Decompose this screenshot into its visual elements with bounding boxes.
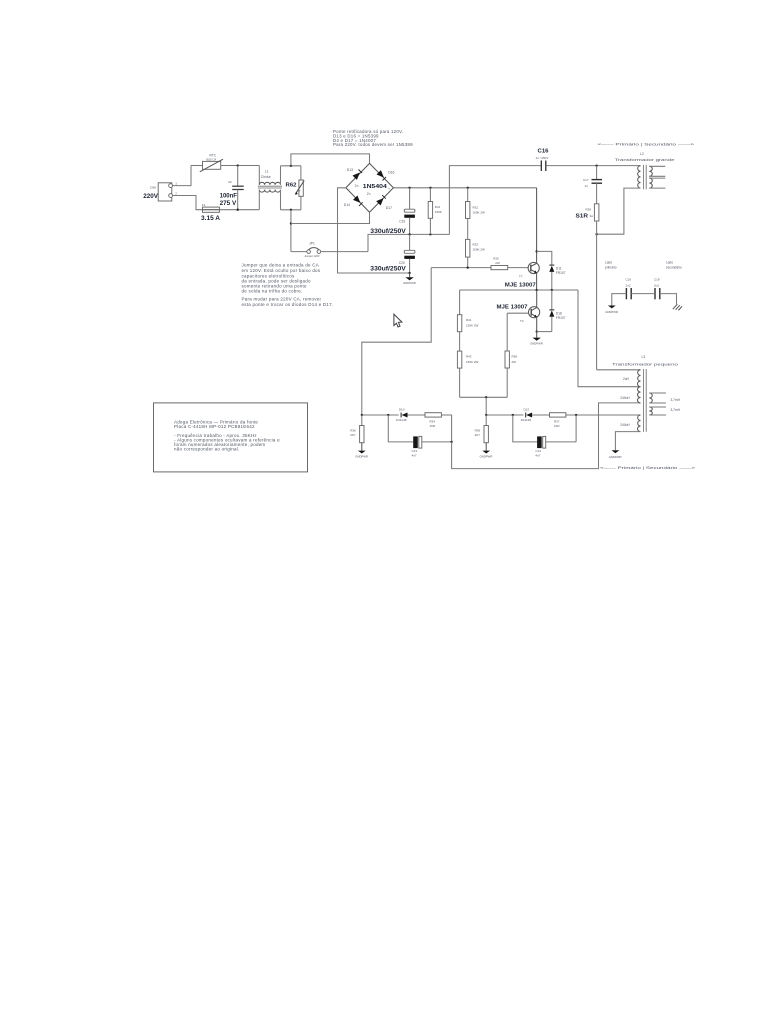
svg-text:GNDPWR: GNDPWR [609,455,622,459]
svg-text:Para 220V. todos devem ser 1N5: Para 220V. todos devem ser 1N5399 [333,142,413,147]
svg-text:Jumper 120V: Jumper 120V [304,254,320,258]
svg-text:R34: R34 [430,420,436,424]
resistor R38 [505,313,517,397]
ground GNDPWR below T4 [530,332,543,346]
capacitor C13 4n7 [388,415,451,457]
wire T4 collector [536,290,538,308]
varistor R62 [286,166,305,210]
wire AC2 down [290,210,292,252]
wire feedback return to L3 [452,403,641,469]
svg-text:R62: R62 [286,183,297,189]
bridge rectifier diamond [346,163,394,212]
wire pin1 to top rail [173,166,191,186]
svg-text:2K7: 2K7 [475,433,481,437]
capacitor C14 4n7 [513,415,576,457]
capacitor C16 1n/250V [536,149,550,171]
capacitor C17 1n [583,166,602,204]
svg-text:150K: 150K [435,210,442,214]
svg-text:R32: R32 [473,206,479,210]
diode D17 [376,195,392,210]
ground GNDPWR below L3 [609,450,622,459]
node R39 top [485,414,487,416]
info box [154,403,308,472]
note bridge rectifier text [333,129,413,147]
svg-text:1N4148: 1N4148 [396,418,407,422]
svg-text:GNDPWR: GNDPWR [530,341,543,345]
ground GNDPWR below C20 [403,273,416,285]
jumper JP1 [291,242,368,258]
ground GNDPWR lado primario [605,306,618,314]
svg-text:150K 2W: 150K 2W [466,324,479,328]
svg-text:150K 2W: 150K 2W [466,360,479,364]
wire bottom rail [219,209,259,211]
wire AC2 to bridge bottom [291,212,370,223]
wire AC1 up to bridge top [291,154,370,166]
svg-text:D16: D16 [388,171,394,175]
svg-text:Choke: Choke [261,175,271,179]
capacitor C18 2n2 [654,278,660,300]
svg-text:R26: R26 [493,257,499,261]
svg-text:2×: 2× [367,192,371,196]
svg-text:R38: R38 [586,208,592,212]
svg-text:X2: X2 [228,180,232,184]
svg-text:1N5404: 1N5404 [363,184,388,190]
node R32 top [467,187,469,189]
svg-text:R31: R31 [435,205,441,209]
svg-text:2W: 2W [495,261,500,265]
wire snubber row 2 [486,414,523,416]
transformer L2 [615,152,675,189]
node D11-D18 [551,289,553,291]
svg-text:T4: T4 [520,319,524,323]
svg-text:275 V: 275 V [220,200,237,207]
wire DC- from bridge left to ground rail [338,188,410,273]
svg-text:150K 2W: 150K 2W [473,248,486,252]
diode D13 [347,168,362,180]
label lado primario [605,261,617,270]
capacitor C20 330uF/250V [370,234,415,273]
svg-text:não corresponder ao original.: não corresponder ao original. [174,446,240,451]
svg-text:B25 C4: B25 C4 [207,157,217,161]
node S1R bottom [595,233,597,235]
node T7 emitter [535,289,537,291]
wire emitter-collector node line [460,289,578,291]
svg-text:10R: 10R [554,424,560,428]
svg-text:10R: 10R [430,424,436,428]
svg-text:GNDPWR: GNDPWR [403,281,416,285]
svg-text:R39: R39 [475,429,481,433]
diode D12 1N4148 [521,408,550,422]
svg-text:MJE 13007: MJE 13007 [505,283,536,289]
svg-text:Jumper que deixa a entrada de: Jumper que deixa a entrada de CA [242,262,319,267]
svg-text:240uH: 240uH [620,423,630,427]
choke L1 [258,166,282,210]
node C13 left [387,414,389,416]
svg-text:R37: R37 [554,420,560,424]
svg-text:L1: L1 [265,170,269,174]
svg-text:2n2: 2n2 [626,283,631,287]
wire top rail left [191,165,203,167]
svg-text:F1: F1 [202,203,206,207]
svg-text:4n7: 4n7 [412,453,417,457]
transformer L3 [612,355,678,432]
svg-text:GNDPWR: GNDPWR [605,310,618,314]
resistor R32 [466,188,486,240]
svg-text:C16: C16 [626,278,632,282]
svg-text:de solda na trilha do cobre.: de solda na trilha do cobre. [242,288,303,293]
wire L2 primary bottom return [597,188,641,234]
svg-text:D14: D14 [344,203,350,207]
node L2 primary top [595,164,597,166]
wire base node T7 [431,267,491,269]
svg-text:2W: 2W [512,360,517,364]
wire feedback drop row 2 [485,397,487,415]
wire T7 emitter [536,273,538,290]
svg-text:1n / 250V: 1n / 250V [536,156,549,160]
wire D11 top branch [537,251,552,265]
svg-text:100nF: 100nF [220,193,238,200]
svg-text:esta ponte e trocar os díodos: esta ponte e trocar os díodos D14 e D17. [242,302,334,307]
svg-text:Lado: Lado [666,261,673,265]
svg-text:2×: 2× [355,184,359,188]
svg-text:C20: C20 [399,261,405,265]
node R37 right [575,414,577,416]
svg-text:JP1: JP1 [309,242,315,246]
node ground [408,272,410,274]
svg-text:R41: R41 [466,318,472,322]
svg-text:+: + [388,187,390,191]
wire snubber row 1 [362,414,399,416]
svg-text:240uH: 240uH [620,396,630,400]
svg-text:4n7: 4n7 [535,453,540,457]
svg-text:2w: 2w [297,189,300,193]
resistor R31 [428,188,442,235]
node AC2 branch [290,222,292,224]
wire top rail mid [221,165,260,167]
svg-text:2uH: 2uH [623,377,630,381]
wire L3 top pin [597,369,641,371]
node X2 top [237,164,239,166]
svg-text:C18: C18 [654,278,660,282]
resistor R39 [475,415,489,443]
wire L3 secondary pins [649,393,666,415]
resistor R41' [457,332,478,398]
wire DC+ rail [393,187,536,189]
thermistor RTC [200,154,223,172]
svg-text:CN8: CN8 [150,186,156,190]
node AC1 [290,165,292,167]
svg-text:S1R: S1R [576,214,589,220]
wire T4 emitter [536,317,538,332]
resistor R34 [425,413,452,442]
svg-text:FR107: FR107 [556,316,566,320]
svg-text:L3: L3 [642,355,646,359]
capacitor X2 [220,166,244,210]
resistor S1R [576,204,599,370]
transistor T7 MJE13007 [505,262,540,288]
node R32' bottom [467,266,469,268]
svg-text:3,7mH: 3,7mH [671,408,681,412]
wire T4 base [507,312,528,314]
node R31 bottom [429,233,431,235]
svg-text:primário: primário [605,266,617,270]
wire R62 box bottom edge [281,209,301,211]
svg-text:R32': R32' [473,243,480,247]
node C15 top [408,187,410,189]
node R31 top [429,187,431,189]
node C13 right [450,441,452,443]
svg-text:3,7mH: 3,7mH [671,398,681,402]
resistor R41 [457,290,478,332]
svg-text:Lado: Lado [605,261,612,265]
svg-text:220V: 220V [143,193,158,200]
diode D14 [344,196,363,208]
svg-text:3.15 A: 3.15 A [201,216,221,222]
svg-text:D10: D10 [399,408,405,412]
wire T7 collector [536,188,538,264]
node R36 top [361,414,363,416]
node D11 branch [535,250,537,252]
diode D18 FR107 [549,290,565,332]
wire base feedback path T7 [362,268,431,415]
wire C16 to L2 [546,165,640,167]
diode D10 1N4148 [396,408,425,422]
svg-text:Para mudar para 220V CA, remov: Para mudar para 220V CA, remover [242,297,322,302]
svg-text:MJE 13007: MJE 13007 [497,305,528,311]
svg-text:secundário: secundário [666,266,682,270]
svg-text:D17: D17 [386,206,392,210]
wire R62 box top edge [281,165,301,167]
svg-text:GNDPWR: GNDPWR [480,454,493,458]
svg-text:L2: L2 [640,152,644,156]
svg-text:«—--- Primário | Secundário --: «—--- Primário | Secundário ---—» [598,143,695,147]
svg-text:em 120V. Está oculto por baix: em 120V. Está oculto por baixo dos [242,268,321,273]
node AC2 top [290,209,292,211]
svg-text:Transformador pequeno: Transformador pequeno [612,362,678,366]
wire tap line to L3 [578,290,641,387]
wire midrail [368,234,449,251]
label lado secundario [666,261,682,270]
resistor R37 [550,413,641,428]
svg-text:R36: R36 [350,429,356,433]
label 2x 1N5404 [349,184,390,196]
node X2 bottom [237,209,239,211]
svg-text:Placa C-4418H MP-012 PCB: Placa C-4418H MP-012 PCB81E642 [174,424,255,429]
note jumper text [242,262,334,307]
svg-text:C16: C16 [538,149,550,155]
wire R41-R38 bottom link [460,396,508,398]
node C20 top [408,233,410,235]
svg-text:2K7: 2K7 [350,433,356,437]
diode D11 FR107 [549,265,565,290]
svg-text:«—--- Primário | Secundário --: «—--- Primário | Secundário ---—» [600,466,695,470]
wire C16-C18 net [612,294,677,306]
wire L3 bottom winding to ground [615,432,640,451]
svg-text:1n: 1n [585,184,589,188]
fuse F1 3.15A [201,203,221,222]
ground GNDPWR below R39 [480,443,493,459]
svg-text:1N4148: 1N4148 [521,418,532,422]
svg-text:R38: R38 [512,354,518,358]
wire pin2 to bottom rail [173,196,203,210]
capacitor C15 330uF/250V [370,188,415,235]
svg-text:D13: D13 [347,168,353,172]
svg-text:R41': R41' [466,354,473,358]
svg-text:D12: D12 [524,408,530,412]
node C14 left [512,414,514,416]
wire C16 branch [449,166,540,235]
node T4 emitter [536,330,538,332]
diode D16 [377,170,395,180]
svg-text:FR107: FR107 [556,271,566,275]
svg-text:Transformador grande: Transformador grande [615,158,675,162]
capacitor C16 2n2 [626,278,632,300]
svg-text:C17: C17 [583,178,589,182]
transistor T4 MJE13007 [497,305,540,323]
svg-text:GNDPWR: GNDPWR [355,454,368,458]
resistor R26 [491,257,528,270]
svg-text:T7: T7 [519,275,523,279]
connector CN8 [143,182,177,201]
ground earth lado secundario [673,304,682,310]
resistor R36 [350,415,364,443]
svg-text:C15: C15 [399,220,405,224]
svg-text:330uf/250V: 330uf/250V [370,267,406,273]
mouse cursor [394,314,402,327]
ground GNDPWR below R36 [355,443,368,459]
resistor R32' [466,239,486,267]
wire emitter to D18 [537,331,552,333]
info box text [174,419,280,451]
svg-text:150K 2W: 150K 2W [473,211,486,215]
svg-text:2n2: 2n2 [654,283,659,287]
node feedback drop [485,396,487,398]
